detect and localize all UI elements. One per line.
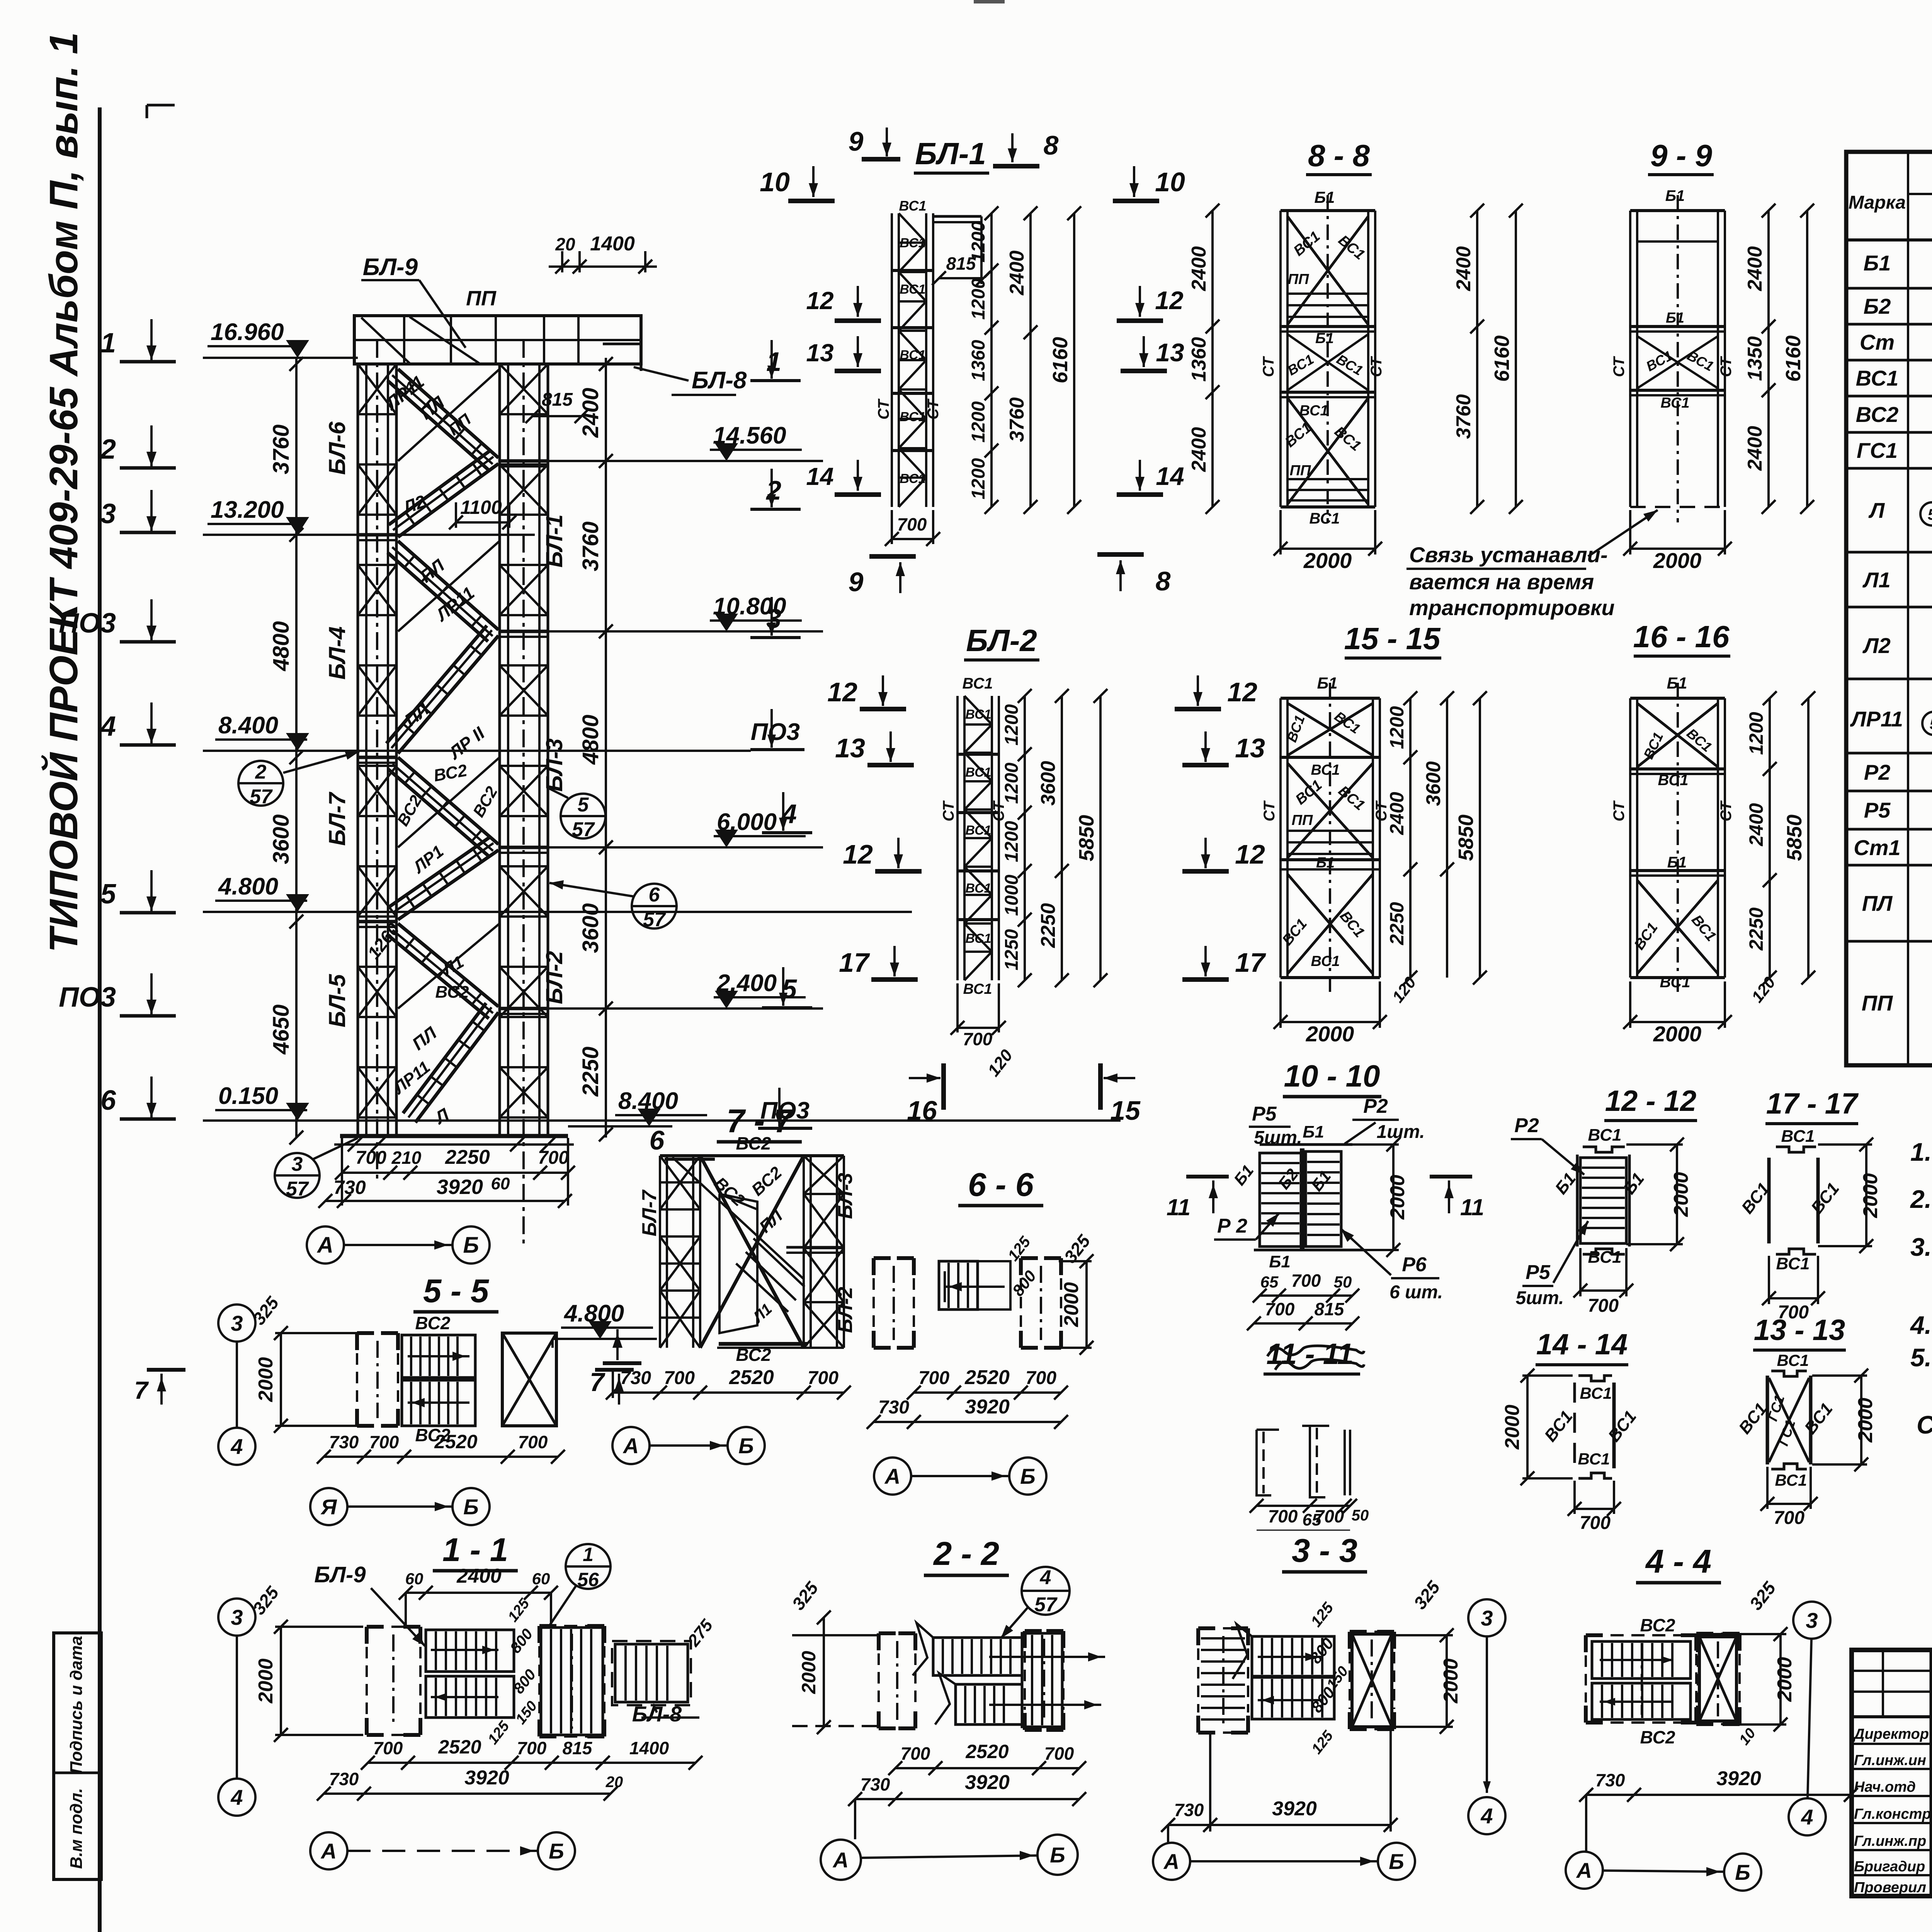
svg-text:СТ: СТ: [1368, 356, 1385, 377]
1-1 axis bubbles: [310, 1832, 347, 1869]
dim 1100: [456, 521, 509, 524]
landing chords: [358, 533, 396, 537]
svg-text:ВС1: ВС1: [965, 931, 991, 946]
svg-text:6: 6: [100, 1085, 116, 1116]
svg-text:3: 3: [766, 604, 781, 634]
14-14 column: [1573, 1383, 1576, 1468]
svg-text:ВС2: ВС2: [736, 1133, 771, 1153]
11-11 dims: [1257, 1505, 1350, 1507]
5-5 cut marks 7: [147, 1368, 185, 1372]
svg-text:Нач.отд: Нач.отд: [1854, 1779, 1916, 1795]
ground line: [340, 1134, 568, 1138]
svg-text:БЛ-8: БЛ-8: [692, 367, 747, 394]
svg-text:Б1: Б1: [1303, 1122, 1324, 1141]
6-6 stair block: [939, 1261, 978, 1310]
svg-text:5: 5: [1928, 506, 1932, 523]
svg-text:Б2: Б2: [1864, 294, 1891, 318]
svg-text:7: 7: [134, 1376, 149, 1404]
БЛ-2 cut marks: [860, 707, 906, 711]
svg-text:Гл.инж.ин: Гл.инж.ин: [1854, 1752, 1926, 1769]
section БЛ-1 column: [891, 213, 893, 507]
1-1 left open column: [367, 1625, 384, 1629]
svg-text:БЛ-9: БЛ-9: [314, 1562, 366, 1587]
8-8 dim chains right: [1476, 211, 1478, 507]
svg-text:ВС1: ВС1: [965, 823, 991, 838]
5-5 axis bubbles: [310, 1488, 347, 1525]
dim 20 1400: [561, 251, 563, 272]
svg-text:700: 700: [1580, 1513, 1611, 1533]
svg-text:БЛ-1: БЛ-1: [915, 136, 986, 171]
svg-text:700: 700: [918, 1368, 949, 1388]
svg-text:10: 10: [1155, 167, 1185, 197]
svg-text:Б1: Б1: [1667, 854, 1687, 871]
svg-text:3: 3: [231, 1605, 243, 1629]
7-7 ПЛ band: [753, 1238, 804, 1287]
svg-text:1шт.: 1шт.: [1377, 1122, 1425, 1142]
9-9 bottom dim 2000: [1630, 548, 1725, 550]
1-1 circles 3 4: [218, 1599, 255, 1636]
svg-text:ТИПОВОЙ ПРОЕКТ 409-29-65 Альбо: ТИПОВОЙ ПРОЕКТ 409-29-65 Альбом П, вып. …: [41, 32, 86, 952]
stair flight 7: [398, 923, 498, 1007]
svg-text:Б1: Б1: [1317, 674, 1337, 692]
svg-text:13: 13: [835, 733, 865, 763]
svg-text:ВС1: ВС1: [962, 675, 993, 692]
svg-text:700: 700: [1268, 1506, 1298, 1526]
svg-text:2250: 2250: [578, 1046, 603, 1097]
svg-text:13.200: 13.200: [211, 497, 284, 523]
svg-text:20: 20: [555, 234, 575, 254]
svg-text:12: 12: [843, 839, 873, 869]
4-4 circles 3 4: [1793, 1602, 1830, 1639]
5-5 circles 3 4: [218, 1304, 255, 1342]
6-6 left open column: [874, 1256, 891, 1260]
7-7 cut mark 7: [603, 1361, 641, 1365]
svg-text:Бригадир: Бригадир: [1854, 1859, 1925, 1875]
svg-text:7: 7: [590, 1367, 605, 1397]
svg-text:1200: 1200: [1002, 762, 1022, 804]
svg-text:ВС2: ВС2: [1856, 402, 1899, 427]
svg-text:1: 1: [100, 328, 116, 359]
svg-text:СТ: СТ: [1611, 356, 1628, 377]
svg-text:Б: Б: [463, 1233, 479, 1258]
stair flight 1: [398, 369, 498, 458]
svg-text:3600: 3600: [1037, 761, 1060, 806]
ref bubble 2/57: [238, 761, 283, 806]
svg-text:4800: 4800: [269, 621, 294, 671]
svg-text:Подпись и дата: Подпись и дата: [67, 1636, 86, 1774]
БЛ-1 dim chains: [990, 213, 993, 507]
left column lattice fill: [358, 413, 396, 415]
svg-text:2000: 2000: [1670, 1172, 1692, 1217]
svg-text:9 - 9: 9 - 9: [1650, 138, 1713, 173]
1-1 stair block: [426, 1630, 514, 1672]
svg-text:ВС1: ВС1: [1311, 762, 1340, 778]
svg-text:700: 700: [1588, 1296, 1619, 1316]
7-7 left chord: [659, 1156, 661, 1348]
svg-text:ПО3: ПО3: [59, 982, 116, 1013]
svg-text:ПП: ПП: [1862, 991, 1893, 1015]
7-7 door shape: [719, 1194, 757, 1333]
svg-text:12: 12: [1227, 677, 1257, 707]
svg-text:730: 730: [1174, 1800, 1204, 1820]
svg-text:1200: 1200: [1002, 821, 1022, 862]
svg-text:16: 16: [907, 1095, 937, 1126]
svg-text:1250: 1250: [1002, 929, 1022, 970]
svg-text:ВС1: ВС1: [1660, 395, 1689, 411]
svg-text:ВС2: ВС2: [736, 1345, 771, 1365]
svg-text:60: 60: [491, 1174, 510, 1193]
svg-text:4.800: 4.800: [563, 1300, 624, 1327]
svg-text:2000: 2000: [1653, 1022, 1702, 1046]
7-7 bottom dims: [613, 1391, 844, 1394]
svg-text:3: 3: [1481, 1606, 1493, 1630]
svg-text:2. Минимальное усилие для креп: 2. Минимальное усилие для крепления элем…: [1910, 1185, 1932, 1213]
svg-text:1200: 1200: [1002, 704, 1022, 745]
svg-text:12 - 12: 12 - 12: [1605, 1085, 1697, 1117]
svg-text:3: 3: [231, 1311, 243, 1335]
БЛ-2 dim chains: [1024, 696, 1026, 980]
svg-text:3760: 3760: [269, 424, 294, 474]
svg-text:2400: 2400: [1188, 246, 1210, 291]
svg-text:2000: 2000: [1440, 1658, 1462, 1704]
stair flight 6: [398, 850, 498, 920]
svg-text:5. Сварные швы принимать по ра: 5. Сварные швы принимать по расчетным ус…: [1910, 1343, 1932, 1372]
svg-text:БЛ-3: БЛ-3: [541, 738, 567, 792]
svg-text:Директор: Директор: [1853, 1726, 1929, 1742]
svg-text:6: 6: [650, 1125, 665, 1155]
svg-text:700: 700: [1044, 1743, 1074, 1764]
section 15-15 column: [1279, 698, 1282, 978]
svg-text:730: 730: [878, 1397, 909, 1418]
svg-text:В.м подл.: В.м подл.: [67, 1788, 86, 1869]
svg-text:16 - 16: 16 - 16: [1633, 619, 1730, 654]
right column lattice fill: [500, 413, 548, 415]
svg-text:3920: 3920: [464, 1767, 509, 1789]
1-1 top dims: [406, 1592, 551, 1594]
section 9-9 column: [1629, 211, 1631, 507]
3-3 bottom dims: [1168, 1824, 1391, 1826]
svg-text:ВС2: ВС2: [1640, 1727, 1675, 1747]
svg-text:12: 12: [1235, 839, 1265, 869]
svg-text:2000: 2000: [1303, 548, 1352, 573]
svg-text:700: 700: [963, 1029, 993, 1049]
svg-text:56: 56: [577, 1569, 599, 1590]
svg-text:1. Схемы складов цемента смотр: 1. Схемы складов цемента смотреть на лис…: [1910, 1138, 1932, 1166]
svg-text:57: 57: [572, 818, 595, 841]
svg-text:2250: 2250: [1745, 907, 1767, 951]
svg-text:700: 700: [901, 1743, 930, 1764]
5-5 bottom dims: [324, 1456, 558, 1458]
svg-text:700: 700: [1291, 1270, 1321, 1291]
svg-text:Проверил: Проверил: [1854, 1879, 1926, 1896]
svg-text:1200: 1200: [1745, 712, 1767, 755]
svg-text:700: 700: [518, 1432, 548, 1452]
svg-text:ВС1: ВС1: [900, 236, 925, 250]
svg-text:БЛ-2: БЛ-2: [834, 1287, 857, 1333]
1-1 БЛ-8 block: [615, 1644, 688, 1702]
svg-text:Л1: Л1: [1862, 568, 1891, 592]
title block outer: [1852, 1650, 1932, 1896]
7-7 big X braces: [700, 1156, 804, 1348]
svg-text:12: 12: [827, 677, 857, 707]
svg-text:17: 17: [1235, 947, 1266, 978]
svg-text:700: 700: [369, 1432, 399, 1452]
13-13 column: [1766, 1376, 1769, 1464]
3-3 left hatched column: [1198, 1626, 1215, 1630]
svg-text:ВС1: ВС1: [1588, 1248, 1622, 1267]
7-7 right chord: [803, 1156, 805, 1348]
svg-text:9: 9: [849, 126, 864, 156]
2-2 stair flight lower: [956, 1684, 1022, 1725]
svg-text:Б: Б: [463, 1495, 479, 1519]
svg-text:вается на время: вается на время: [1409, 570, 1594, 594]
svg-text:730: 730: [333, 1177, 366, 1198]
svg-text:50: 50: [1334, 1273, 1352, 1291]
svg-text:3760: 3760: [1452, 394, 1475, 439]
svg-text:700: 700: [1265, 1299, 1295, 1319]
6-6 bottom dims: [914, 1391, 1061, 1394]
ref bubble 4/57: [1022, 1567, 1070, 1615]
7-7 top/bottom chords: [660, 1154, 844, 1157]
svg-text:СТ: СТ: [940, 800, 957, 821]
svg-text:ГС1: ГС1: [1857, 438, 1898, 463]
svg-text:Л2: Л2: [1862, 633, 1891, 658]
svg-text:0.150: 0.150: [218, 1083, 278, 1109]
svg-text:Р6: Р6: [1402, 1253, 1427, 1276]
svg-text:Б: Б: [1389, 1849, 1404, 1874]
svg-text:БЛ-2: БЛ-2: [966, 623, 1037, 658]
svg-text:2000: 2000: [1653, 548, 1702, 573]
svg-text:700: 700: [538, 1148, 569, 1168]
svg-text:3600: 3600: [1422, 761, 1445, 806]
svg-text:Гл.инж.пр: Гл.инж.пр: [1854, 1833, 1926, 1849]
svg-text:БЛ-9: БЛ-9: [363, 254, 418, 281]
svg-text:ВС1: ВС1: [1781, 1127, 1815, 1146]
svg-text:3760: 3760: [1006, 397, 1028, 442]
svg-text:4: 4: [100, 711, 116, 742]
svg-text:3920: 3920: [1272, 1798, 1317, 1820]
ref bubble 6/57: [632, 884, 677, 929]
stair flight 3: [398, 541, 498, 630]
svg-text:5850: 5850: [1075, 815, 1098, 861]
bottom-left stamp boxes: [54, 1633, 101, 1879]
ref bubble 3/57: [275, 1153, 320, 1198]
svg-text:4 - 4: 4 - 4: [1645, 1543, 1711, 1580]
svg-text:2000: 2000: [255, 1658, 277, 1704]
svg-text:БЛ-6: БЛ-6: [324, 421, 350, 474]
svg-text:БЛ-4: БЛ-4: [324, 626, 350, 680]
svg-text:Л: Л: [1868, 498, 1885, 522]
svg-text:13: 13: [1156, 338, 1184, 367]
svg-text:815: 815: [563, 1738, 593, 1758]
svg-text:3920: 3920: [1716, 1767, 1761, 1790]
svg-text:Б: Б: [549, 1839, 564, 1863]
svg-text:Ст: Ст: [1860, 330, 1895, 354]
svg-text:ВС1: ВС1: [1309, 510, 1340, 527]
svg-text:Р5: Р5: [1864, 798, 1891, 822]
svg-text:13: 13: [1235, 733, 1265, 763]
17-17 column: [1767, 1158, 1771, 1243]
svg-text:ВС1: ВС1: [900, 282, 925, 297]
svg-text:ПО3: ПО3: [59, 608, 116, 639]
svg-text:3760: 3760: [578, 521, 603, 571]
svg-text:2: 2: [255, 761, 267, 783]
corner tick top-left: [147, 104, 175, 107]
tower dim chain right: [605, 358, 607, 1138]
8-8 dim chain left: [1211, 211, 1214, 507]
svg-text:6160: 6160: [1490, 335, 1514, 382]
svg-text:11: 11: [1167, 1194, 1190, 1220]
svg-text:8.400: 8.400: [618, 1088, 678, 1114]
svg-text:17: 17: [839, 947, 870, 978]
svg-text:3920: 3920: [965, 1396, 1010, 1418]
svg-text:А: А: [622, 1434, 639, 1458]
svg-text:2400: 2400: [1744, 246, 1766, 291]
svg-text:2520: 2520: [434, 1431, 477, 1452]
svg-text:730: 730: [861, 1774, 890, 1794]
svg-text:2000: 2000: [1854, 1398, 1877, 1443]
svg-text:1200: 1200: [968, 278, 989, 320]
svg-text:12: 12: [806, 287, 833, 315]
svg-text:3: 3: [1806, 1608, 1818, 1633]
svg-text:Гл.констр: Гл.констр: [1854, 1806, 1931, 1822]
section 16-16 column: [1629, 698, 1631, 978]
svg-text:15 - 15: 15 - 15: [1344, 621, 1441, 656]
svg-text:2520: 2520: [964, 1366, 1010, 1389]
svg-text:1200: 1200: [968, 458, 989, 499]
svg-text:ВС1: ВС1: [1311, 953, 1340, 969]
svg-text:8: 8: [1156, 566, 1171, 596]
stair flight 8: [415, 1012, 498, 1122]
svg-text:2520: 2520: [965, 1741, 1009, 1762]
svg-text:ПО3: ПО3: [760, 1097, 810, 1124]
svg-text:2000: 2000: [1060, 1282, 1083, 1327]
svg-text:57: 57: [286, 1178, 309, 1200]
svg-text:2000: 2000: [1306, 1022, 1354, 1046]
svg-text:13 - 13: 13 - 13: [1754, 1314, 1845, 1347]
svg-text:1360: 1360: [1188, 337, 1210, 382]
svg-text:Б1: Б1: [1315, 330, 1334, 347]
svg-text:4: 4: [1040, 1566, 1051, 1589]
svg-text:57: 57: [250, 786, 273, 808]
svg-text:ВС1: ВС1: [900, 471, 925, 486]
svg-text:А: А: [1163, 1849, 1179, 1874]
svg-text:2520: 2520: [438, 1736, 481, 1758]
svg-text:2000: 2000: [1774, 1657, 1796, 1702]
svg-text:СТ: СТ: [1718, 800, 1735, 821]
svg-text:Б1: Б1: [1864, 251, 1891, 275]
svg-text:700: 700: [517, 1738, 547, 1758]
svg-text:Б1: Б1: [1316, 855, 1335, 871]
svg-text:1400: 1400: [590, 233, 635, 255]
svg-text:6 - 6: 6 - 6: [968, 1167, 1034, 1203]
svg-text:9: 9: [849, 567, 864, 597]
svg-text:ВС1: ВС1: [965, 765, 991, 780]
5-5 right X column: [502, 1333, 556, 1426]
svg-text:6: 6: [649, 884, 660, 906]
svg-text:Марка: Марка: [1849, 192, 1906, 213]
1-1 right column hatched: [541, 1628, 603, 1735]
svg-text:2400: 2400: [1006, 250, 1028, 296]
svg-text:Р2: Р2: [1363, 1095, 1388, 1117]
svg-text:2000: 2000: [798, 1651, 820, 1694]
svg-text:ВС2: ВС2: [435, 983, 469, 1002]
svg-text:2: 2: [100, 434, 116, 465]
svg-text:СТ: СТ: [1611, 800, 1628, 821]
svg-text:3. Лестничные блоки БЛ-3; БЛ-4: 3. Лестничные блоки БЛ-3; БЛ-4; БЛ-5;БЛ-…: [1910, 1233, 1932, 1261]
svg-text:14: 14: [1156, 462, 1184, 490]
svg-text:2000: 2000: [1501, 1405, 1524, 1450]
svg-text:Б: Б: [1020, 1464, 1036, 1488]
svg-text:8: 8: [1044, 130, 1059, 160]
svg-text:2400: 2400: [1745, 803, 1767, 846]
stairwell bracing diagonals: [398, 369, 500, 461]
2-2 bottom dims: [895, 1767, 1079, 1769]
svg-text:4: 4: [1801, 1805, 1813, 1829]
14-14 dims: [1526, 1376, 1529, 1478]
svg-text:1100: 1100: [460, 497, 502, 518]
svg-text:5850: 5850: [1783, 815, 1806, 861]
svg-text:730: 730: [329, 1432, 359, 1452]
17-17 dims: [1769, 1297, 1818, 1299]
10-10 stair strips: [1260, 1153, 1301, 1247]
svg-text:БЛ-3: БЛ-3: [834, 1173, 857, 1219]
svg-text:Р 2: Р 2: [1217, 1215, 1247, 1237]
svg-text:Р5: Р5: [1526, 1261, 1551, 1284]
svg-text:1000: 1000: [1002, 874, 1022, 916]
svg-text:3600: 3600: [578, 903, 603, 953]
svg-text:ПП: ПП: [1290, 463, 1311, 479]
svg-text:2.400: 2.400: [716, 970, 777, 997]
svg-text:730: 730: [329, 1769, 359, 1789]
svg-text:50: 50: [1352, 1507, 1369, 1524]
svg-text:ВС1: ВС1: [1299, 403, 1328, 419]
2-2 left open column: [879, 1631, 896, 1635]
stair flight 5: [398, 757, 498, 844]
svg-text:ВС1: ВС1: [900, 410, 925, 424]
svg-text:5шт.: 5шт.: [1254, 1128, 1302, 1148]
svg-text:СТ: СТ: [925, 398, 942, 420]
svg-text:А: А: [832, 1848, 849, 1872]
1-1 bottom dims: [368, 1762, 603, 1764]
svg-text:ЛР11: ЛР11: [1850, 707, 1903, 731]
svg-text:1: 1: [766, 347, 781, 377]
svg-text:ВС2: ВС2: [1640, 1615, 1675, 1635]
4-4 bottom dims: [1586, 1794, 1851, 1796]
ref bubble 1/56: [566, 1544, 611, 1589]
svg-text:11: 11: [1460, 1194, 1484, 1220]
svg-text:БЛ-8: БЛ-8: [632, 1702, 682, 1726]
svg-text:БЛ-7: БЛ-7: [638, 1189, 661, 1236]
svg-text:Р5: Р5: [1252, 1103, 1277, 1125]
svg-text:ПЛ: ПЛ: [1862, 891, 1893, 915]
svg-text:1200: 1200: [968, 401, 989, 442]
svg-text:6160: 6160: [1049, 337, 1072, 383]
svg-text:СТ: СТ: [875, 398, 892, 420]
svg-text:Б1: Б1: [1666, 310, 1684, 326]
svg-text:А: А: [320, 1839, 337, 1863]
svg-text:5: 5: [1930, 716, 1932, 733]
svg-text:14.560: 14.560: [713, 422, 786, 449]
svg-text:17 - 17: 17 - 17: [1766, 1087, 1859, 1120]
ref bubble 5/57: [561, 794, 605, 838]
12-12 hatched column: [1580, 1158, 1626, 1243]
level flag 4.800 at 7-7: [553, 1338, 657, 1340]
2-2 stair flight upper: [933, 1638, 1022, 1675]
section 8-8 column: [1279, 211, 1282, 507]
svg-text:700: 700: [897, 514, 927, 534]
svg-text:57: 57: [1034, 1594, 1058, 1616]
